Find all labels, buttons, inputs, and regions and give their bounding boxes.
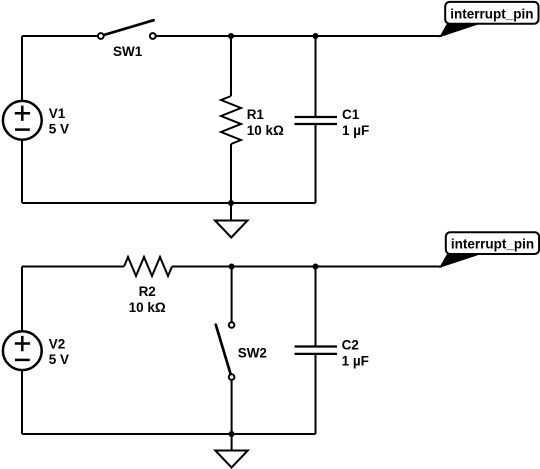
net flag interrupt_pin (circuit 2)	[439, 232, 539, 268]
svg-text:R2: R2	[139, 284, 156, 299]
node junction dot top of C1	[313, 33, 319, 39]
svg-text:C2: C2	[342, 338, 359, 353]
node junction dot bottom (ground node)	[228, 200, 234, 206]
wire bottom (circuit 2)	[22, 433, 316, 435]
svg-text:1 µF: 1 µF	[342, 354, 369, 369]
resistor R2	[124, 257, 172, 276]
wire left vertical upper (top wire to V2)	[21, 267, 23, 332]
svg-text:V1: V1	[49, 106, 66, 121]
voltage source V2	[3, 331, 42, 370]
svg-text:interrupt_pin: interrupt_pin	[451, 237, 534, 252]
svg-text:10 kΩ: 10 kΩ	[129, 300, 166, 315]
capacitor C1	[295, 36, 338, 203]
capacitor C2	[295, 267, 338, 435]
svg-text:V2: V2	[49, 336, 66, 351]
wire left vertical upper (top wire to V1)	[21, 36, 23, 101]
node junction dot bottom (ground node 2)	[229, 431, 235, 437]
voltage source V1	[3, 101, 42, 140]
wire top-left (V1 to SW1)	[22, 35, 98, 37]
svg-text:10 kΩ: 10 kΩ	[247, 123, 284, 138]
node junction dot top of C2	[313, 264, 319, 270]
svg-text:SW1: SW1	[113, 44, 143, 59]
ground (circuit 2)	[215, 434, 248, 468]
wire top (R2 to interrupt flag)	[172, 266, 442, 268]
svg-text:1 µF: 1 µF	[342, 123, 369, 138]
svg-text:C1: C1	[342, 107, 360, 122]
wire top (SW1 to interrupt flag)	[156, 35, 442, 37]
wire bottom (circuit 1)	[22, 202, 316, 204]
switch SW2	[216, 267, 235, 435]
svg-text:5 V: 5 V	[49, 352, 69, 367]
node junction dot top of R1	[228, 33, 234, 39]
wire top-left (V2 to R2)	[22, 266, 124, 268]
net flag interrupt_pin (circuit 1)	[439, 2, 539, 38]
svg-text:5 V: 5 V	[49, 122, 69, 137]
switch SW1	[98, 20, 156, 39]
svg-text:interrupt_pin: interrupt_pin	[450, 6, 533, 21]
wire left vertical lower (V2 to bottom wire)	[21, 370, 23, 434]
ground (circuit 1)	[215, 203, 248, 238]
wire left vertical lower (V1 to bottom wire)	[21, 140, 23, 203]
svg-text:R1: R1	[247, 107, 265, 122]
node junction dot top of SW2	[229, 264, 235, 270]
svg-text:SW2: SW2	[238, 346, 267, 361]
resistor R1	[221, 36, 241, 203]
